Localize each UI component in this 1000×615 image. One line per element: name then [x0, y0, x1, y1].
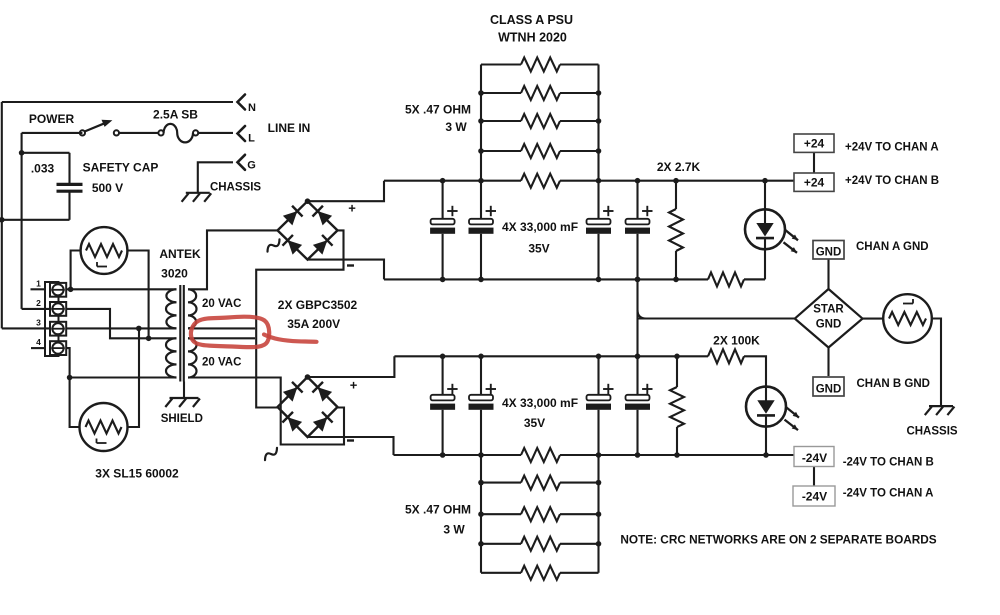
label G	[247, 160, 256, 172]
junction dot C2 top	[440, 178, 446, 184]
wire secondary-2 bottom to bridge2 AC	[188, 378, 344, 445]
svg-text:SHIELD: SHIELD	[161, 413, 203, 425]
svg-text:GND: GND	[816, 384, 842, 396]
ground shield	[165, 398, 200, 407]
svg-text:2X 2.7K: 2X 2.7K	[657, 160, 701, 174]
connector L chevron	[238, 126, 246, 141]
resistor R6 .47 ohm	[481, 476, 599, 490]
label .033	[31, 162, 55, 176]
wire star gnd feed	[638, 310, 795, 319]
wire LED1 top lead	[764, 181, 766, 210]
wire terminal 4 to junction	[66, 348, 70, 377]
capacitor C9 33000mF	[625, 395, 650, 410]
junction dot LED2 bottom	[763, 452, 769, 458]
svg-text:35V: 35V	[524, 416, 545, 430]
wire cap C8 top lead	[597, 356, 599, 395]
capacitor C4 33000mF	[586, 219, 611, 234]
svg-text:+: +	[348, 201, 356, 216]
junction dot ladder2 left	[478, 511, 484, 517]
label 3 W (lower)	[443, 523, 465, 537]
wire terminal 1 to transformer	[66, 288, 177, 290]
svg-text:3X SL15 60002: 3X SL15 60002	[95, 467, 179, 481]
wire G connector to chassis	[198, 162, 233, 192]
wire bridge2 + output	[308, 356, 395, 377]
wire thermistor2 right lead	[128, 328, 140, 427]
wire switch to fuse	[119, 132, 159, 134]
label + of C2	[447, 206, 457, 216]
svg-text:GND: GND	[816, 319, 842, 331]
transformer T1 secondary winding A	[188, 289, 197, 328]
label + of C5	[642, 206, 652, 216]
capacitor C2 33000mF	[430, 219, 455, 234]
wire terminal 4 stub left	[31, 347, 45, 349]
thermistor RT1 SL15	[81, 227, 128, 274]
wire cap C4 bottom lead	[597, 234, 599, 280]
wire fuse to L connector	[198, 132, 233, 134]
terminal -24 CHAN A box	[793, 486, 835, 506]
wire gnd interconnect	[636, 279, 638, 356]
label 35V (upper)	[528, 242, 549, 256]
svg-text:STAR: STAR	[813, 304, 844, 316]
node: neutral vertical rail	[1, 102, 3, 328]
terminal GND CHAN A box	[813, 241, 844, 260]
junction dot ladder1 left	[478, 148, 484, 154]
wire +24 bus	[384, 174, 794, 188]
resistor R7 .47 ohm	[481, 507, 599, 521]
label 500 V	[92, 181, 123, 195]
wire thermistor1 right lead	[127, 251, 148, 339]
label 20 VAC (lower)	[202, 357, 241, 369]
wire upper gnd bus	[384, 272, 765, 286]
svg-text:5X .47 OHM: 5X .47 OHM	[405, 503, 471, 517]
svg-text:LINE IN: LINE IN	[268, 121, 311, 135]
thermistor RT2 SL15	[80, 403, 128, 451]
wire safety-cap top branch	[22, 152, 70, 154]
svg-text:L: L	[248, 133, 255, 145]
wire -24 bus	[394, 448, 796, 462]
annotation red marker oval	[191, 317, 269, 348]
wire center-tap bus	[256, 230, 343, 407]
wire bridge1 - output	[308, 260, 385, 280]
svg-text:5X .47 OHM: 5X .47 OHM	[405, 103, 471, 117]
label 35A 200V	[287, 317, 340, 331]
ground chassis (line-in)	[182, 193, 212, 202]
svg-text:WTNH 2020: WTNH 2020	[498, 31, 567, 45]
label 35V (lower)	[524, 416, 545, 430]
svg-text:CHASSIS: CHASSIS	[906, 426, 957, 438]
resistor R3 .47 ohm	[481, 114, 599, 128]
label + of C4	[603, 206, 613, 216]
wire thermistor3 right lead	[932, 319, 941, 406]
svg-text:3020: 3020	[161, 267, 188, 281]
wire cap C6 top lead	[442, 356, 444, 395]
wire cap bottom lead	[68, 193, 70, 220]
wire cap C5 bottom lead	[636, 234, 638, 280]
wire cap C7 top lead	[480, 356, 482, 395]
wire cap C8 bottom lead	[597, 410, 599, 455]
junction dot terminal4/thermistor2	[67, 375, 73, 381]
resistor R9 .47 ohm	[481, 566, 599, 580]
svg-text:3 W: 3 W	[445, 120, 467, 134]
terminal +24 CHAN B box	[794, 173, 834, 191]
junction dot C7 top	[478, 354, 484, 360]
junction dot thermistor1-right/primary	[146, 336, 152, 342]
wire bridge2 - output	[308, 437, 394, 455]
terminal -24 CHAN B box	[794, 447, 834, 467]
label WTNH 2020	[498, 31, 567, 45]
label 3020	[161, 267, 188, 281]
wire center tap 1	[188, 327, 255, 329]
svg-text:2.5A SB: 2.5A SB	[153, 108, 198, 122]
label 3 W (upper)	[445, 120, 467, 134]
label 5X .47 OHM (lower)	[405, 503, 471, 517]
wire cap C5 top lead	[636, 181, 638, 219]
label + of C3	[486, 206, 496, 216]
wire cap C2 top lead	[442, 181, 444, 219]
svg-text:CHASSIS: CHASSIS	[210, 182, 261, 194]
svg-text:35A 200V: 35A 200V	[287, 317, 340, 331]
LED D1 (+24 indicator)	[745, 209, 798, 253]
connector N chevron	[238, 95, 246, 110]
thermistor RT3 SL15	[883, 294, 932, 343]
switch SW1 right contact	[114, 130, 119, 135]
label bridge1 -	[347, 264, 354, 266]
label CHAN B GND	[857, 378, 930, 390]
svg-text:500 V: 500 V	[92, 181, 123, 195]
label 4X 33,000 mF (upper)	[502, 220, 578, 234]
wire thermistor2 left lead	[70, 378, 80, 428]
svg-text:ANTEK: ANTEK	[159, 247, 201, 261]
label -24V TO CHAN B	[843, 457, 934, 469]
junction dot neutral/cap-bottom	[0, 217, 5, 223]
svg-text:2X 100K: 2X 100K	[713, 334, 760, 348]
junction dot C3 top	[478, 178, 484, 184]
svg-text:+24V TO CHAN A: +24V TO CHAN A	[845, 142, 939, 154]
label 5X .47 OHM (upper)	[405, 103, 471, 117]
svg-text:SAFETY CAP: SAFETY CAP	[83, 161, 159, 175]
fuse F1 right contact	[193, 130, 198, 135]
junction dot ladder2 right	[596, 541, 602, 547]
resistor R1 .47 ohm	[481, 58, 599, 72]
label SHIELD	[161, 413, 203, 425]
svg-text:+24: +24	[804, 137, 825, 151]
junction dot interconnect bottom	[635, 354, 641, 360]
junction dot ladder1 right	[596, 118, 602, 124]
junction dot bleeder2 bottom	[674, 452, 680, 458]
resistor R5 2.7K bleeder	[669, 181, 683, 280]
capacitor C1 .033 safety cap	[57, 184, 83, 191]
connector G chevron	[238, 155, 246, 170]
junction dot C5 top	[635, 178, 641, 184]
junction dot C3 bottom	[478, 277, 484, 283]
svg-text:2: 2	[36, 298, 41, 308]
label SAFETY CAP	[83, 161, 159, 175]
wire thermistor1 left lead	[71, 251, 81, 290]
junction dot C2 bottom	[440, 277, 446, 283]
svg-text:20 VAC: 20 VAC	[202, 298, 241, 310]
junction dot C8 bottom	[596, 452, 602, 458]
label 2X 2.7K	[657, 160, 701, 174]
wire LED2 bottom lead	[765, 427, 767, 455]
junction dot terminal1/thermistor	[68, 287, 74, 293]
junction dot C4 bottom	[596, 277, 602, 283]
capacitor C6 33000mF	[430, 395, 455, 410]
wire cap C2 bottom lead	[442, 234, 444, 280]
svg-text:POWER: POWER	[29, 112, 75, 126]
wire secondary-1 top to bridge1 AC	[188, 230, 278, 289]
junction dot bleeder2 top	[674, 354, 680, 360]
wire LED1 bottom lead	[744, 249, 765, 279]
wire center tap 2	[188, 337, 255, 339]
wire cap C7 bottom lead	[480, 410, 482, 455]
switch SW1 wire from live rail	[22, 132, 83, 134]
terminal GND CHAN B box	[813, 377, 844, 396]
ground chassis (star)	[925, 406, 955, 415]
wire ladder1 right rail	[597, 65, 599, 181]
label 20 VAC (upper)	[202, 298, 241, 310]
wire cap C4 top lead	[597, 181, 599, 219]
resistor R10 100K bleeder	[670, 356, 684, 455]
label LINE IN	[268, 121, 311, 135]
label + of C6	[447, 384, 457, 394]
junction dot C8 top	[596, 354, 602, 360]
wire cap C3 top lead	[480, 181, 482, 219]
label 2.5A SB	[153, 108, 198, 122]
wire: neutral line from N connector	[2, 101, 233, 103]
wire cap C6 bottom lead	[442, 410, 444, 455]
junction dot ladder2 left	[478, 480, 484, 486]
fuse F1 body (slow-blow S curve)	[164, 124, 193, 142]
switch SW1 left contact	[80, 130, 85, 135]
junction dot ladder2 left	[478, 541, 484, 547]
svg-text:CLASS A PSU: CLASS A PSU	[490, 13, 573, 27]
svg-text:-24V: -24V	[802, 451, 827, 465]
label pin 1	[36, 279, 41, 289]
label pin 4	[36, 337, 41, 347]
capacitor C7 33000mF	[469, 395, 494, 410]
squiggle AC bridge1	[265, 239, 282, 251]
wire terminal 1 stub left	[31, 288, 46, 290]
label -24V TO CHAN A	[843, 487, 934, 499]
svg-text:-24V TO CHAN B: -24V TO CHAN B	[843, 457, 934, 469]
label 3X SL15 60002	[95, 467, 179, 481]
squiggle AC bridge2	[262, 448, 279, 460]
switch SW1 arm with arrow	[85, 120, 113, 132]
wire cap C9 bottom lead	[636, 410, 638, 455]
svg-text:2X GBPC3502: 2X GBPC3502	[278, 298, 358, 312]
svg-text:3 W: 3 W	[443, 523, 465, 537]
wire safety-cap bottom branch	[2, 219, 70, 221]
transformer T1 primary winding A	[166, 289, 177, 328]
wire terminal 3 through-wire	[2, 327, 177, 329]
transformer T1 primary winding B	[166, 338, 177, 377]
junction dot thermistor2-right/primary	[136, 326, 142, 332]
svg-text:NOTE: CRC NETWORKS ARE ON 2 SE: NOTE: CRC NETWORKS ARE ON 2 SEPARATE BOA…	[620, 533, 936, 547]
wire terminal 2 through-wire	[22, 309, 177, 338]
label + of C9	[642, 384, 652, 394]
capacitor C3 33000mF	[469, 219, 494, 234]
junction dot ladder2 right	[596, 511, 602, 517]
label CHASSIS (star)	[906, 426, 957, 438]
junction dot C7 bottom	[478, 452, 484, 458]
label 4X 33,000 mF (lower)	[502, 396, 578, 410]
svg-text:4X 33,000 mF: 4X 33,000 mF	[502, 220, 578, 234]
wire lower gnd bus	[394, 349, 766, 386]
label CLASS A PSU	[490, 13, 573, 27]
star gnd diamond	[795, 289, 863, 348]
wire gnd box B lead	[827, 348, 829, 377]
label ANTEK	[159, 247, 201, 261]
svg-text:3: 3	[36, 318, 41, 328]
junction dot ladder1 left	[478, 90, 484, 96]
wire ladder1 left rail	[480, 65, 482, 181]
junction dot bleeder bottom	[673, 277, 679, 283]
junction dot ladder2 right	[596, 480, 602, 486]
label bridge1 +	[348, 201, 356, 216]
wire cap C9 top lead	[636, 356, 638, 395]
junction dot C6 top	[440, 354, 446, 360]
label L	[248, 133, 255, 145]
junction dot C6 bottom	[440, 452, 446, 458]
svg-text:CHAN B GND: CHAN B GND	[857, 378, 930, 390]
junction dot C9 bottom	[635, 452, 641, 458]
label N	[248, 102, 256, 114]
wire bridge1 + output	[308, 181, 385, 202]
junction dot ladder1 right	[596, 148, 602, 154]
svg-text:-24V TO CHAN A: -24V TO CHAN A	[843, 487, 934, 499]
resistor R8 .47 ohm	[481, 537, 599, 551]
junction dot live/cap-top	[19, 150, 25, 156]
svg-text:GND: GND	[816, 247, 842, 259]
fuse F1 left contact	[158, 130, 163, 135]
label CHASSIS (line-in)	[210, 182, 261, 194]
wire ladder2 left rail	[480, 455, 482, 573]
label NOTE	[620, 533, 936, 547]
svg-text:+24V TO CHAN B: +24V TO CHAN B	[845, 175, 939, 187]
svg-text:CHAN A GND: CHAN A GND	[856, 241, 929, 253]
junction dot bleeder top	[673, 178, 679, 184]
capacitor C8 33000mF	[586, 395, 611, 410]
label POWER	[29, 112, 75, 126]
svg-text:35V: 35V	[528, 242, 549, 256]
wire cap C3 bottom lead	[480, 234, 482, 280]
junction dot LED1 top	[762, 178, 768, 184]
resistor R4 .47 ohm	[481, 144, 599, 158]
svg-text:1: 1	[36, 279, 41, 289]
junction dot C5 bottom	[635, 277, 641, 283]
terminal +24 CHAN A box	[794, 134, 834, 152]
junction dot bridge2 top	[305, 374, 311, 380]
label 2X 100K	[713, 334, 760, 348]
label +24V TO CHAN A	[845, 142, 939, 154]
wire -24 box link	[813, 467, 815, 487]
wire primary-2 bottom to terminal4 junction	[70, 376, 177, 378]
label pin 3	[36, 318, 41, 328]
diode bridge BR2 GBPC3502	[278, 377, 338, 437]
transformer T1 core	[180, 285, 184, 382]
label bridge2 -	[347, 439, 354, 441]
junction dot bridge1 top	[305, 198, 311, 204]
label bridge2 +	[350, 378, 358, 393]
wire cap top lead	[68, 153, 70, 184]
wire gnd box A lead	[827, 259, 829, 289]
label pin 2	[36, 298, 41, 308]
svg-text:4X 33,000 mF: 4X 33,000 mF	[502, 396, 578, 410]
junction dot interconnect top	[635, 277, 641, 283]
svg-text:N: N	[248, 102, 256, 114]
svg-text:4: 4	[36, 337, 41, 347]
wire +24 box link	[813, 152, 815, 173]
label CHAN A GND	[856, 241, 929, 253]
junction dot C4 top	[596, 178, 602, 184]
diode bridge BR1 GBPC3502	[278, 201, 338, 259]
svg-text:20 VAC: 20 VAC	[202, 357, 241, 369]
label 2X GBPC3502	[278, 298, 358, 312]
capacitor C5 33000mF	[625, 219, 650, 234]
wire thermistor3 left lead	[863, 318, 884, 320]
LED D2 (-24 indicator)	[746, 387, 799, 431]
connector J1 terminal block	[45, 282, 66, 356]
wire shield lead	[183, 382, 185, 398]
junction dot ladder1 right	[596, 90, 602, 96]
label +24V TO CHAN B	[845, 175, 939, 187]
label + of C7	[486, 384, 496, 394]
svg-text:.033: .033	[31, 162, 55, 176]
svg-text:+: +	[350, 378, 358, 393]
annotation red marker tail	[264, 335, 317, 342]
junction dot ladder1 left	[478, 118, 484, 124]
transformer T1 secondary winding B	[188, 338, 197, 377]
label + of C8	[603, 384, 613, 394]
node: switched-live vertical rail	[21, 133, 23, 309]
resistor R2 .47 ohm	[481, 86, 599, 100]
wire ladder2 right rail	[597, 455, 599, 573]
svg-text:-24V: -24V	[802, 490, 827, 504]
junction dot C9 top	[635, 354, 641, 360]
svg-text:G: G	[247, 160, 256, 172]
svg-text:+24: +24	[804, 176, 825, 190]
